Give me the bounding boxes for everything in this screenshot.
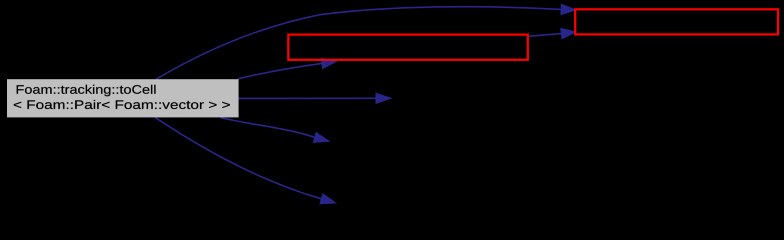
edge: toCell -> top red node (arc) — [156, 4, 576, 79]
edge: toCell -> hidden node 1 — [238, 93, 391, 104]
edge: toCell -> hidden node 3 — [155, 117, 336, 204]
edge: toCell -> mid red node — [238, 58, 337, 79]
edge: mid red node -> top red node — [529, 28, 576, 39]
node: mid red box (truncated callee) — [288, 35, 528, 60]
edge: toCell -> hidden node 2 — [221, 118, 330, 143]
node: top-right red box (truncated callee) — [575, 9, 778, 34]
label line 2: < Foam::Pair< Foam::vector > > — [14, 100, 230, 109]
node: current function (gray box) — [7, 79, 239, 117]
label line 1: Foam::tracking::toCell — [17, 85, 156, 97]
